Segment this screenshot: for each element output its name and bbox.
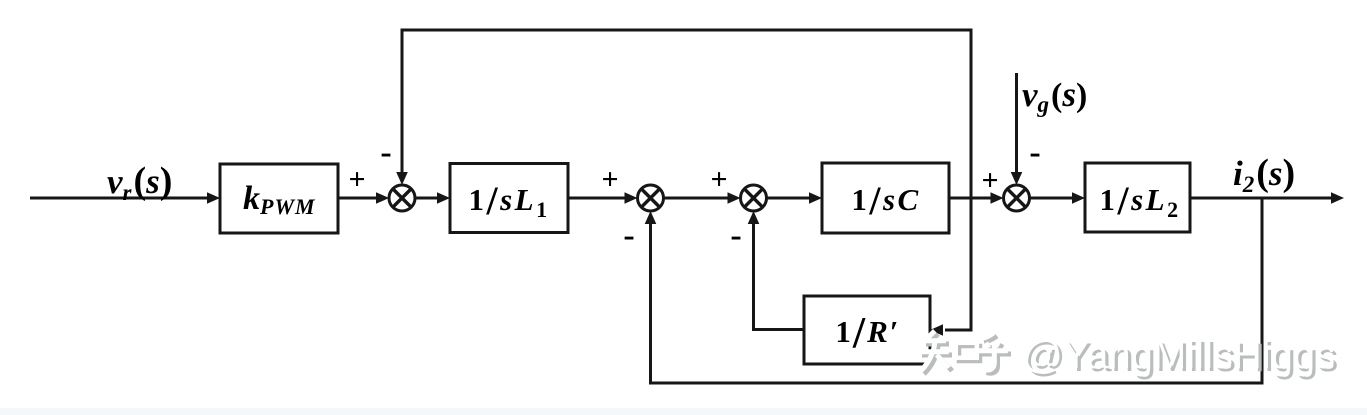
wire output i2 — [1190, 197, 1332, 200]
arrowhead into L1 — [437, 192, 450, 204]
block kPWM — [220, 164, 338, 233]
arrowhead into S2 left — [625, 192, 638, 204]
wire L1 to sum S2 — [568, 197, 626, 200]
summing junction S3 — [741, 185, 767, 211]
arrowhead into S1 left — [376, 192, 389, 204]
arrowhead into S4 left — [991, 192, 1004, 204]
summing junction S4 — [1004, 185, 1030, 211]
block 1/sC — [822, 163, 949, 233]
summing junction S1 — [389, 185, 415, 211]
arrowhead into L2 — [1072, 192, 1085, 204]
wire bottom feedback i2 to S2 — [651, 198, 1263, 383]
wire S1 to block L1 — [415, 197, 439, 200]
wire S3 to block C — [767, 197, 812, 200]
arrowhead output — [1331, 192, 1344, 204]
svg-text:+: + — [601, 163, 618, 196]
arrowhead into S3 bottom — [748, 211, 760, 224]
svg-text:vg(s): vg(s) — [1022, 75, 1087, 117]
svg-text:@YangMillsHiggs: @YangMillsHiggs — [1022, 333, 1335, 377]
wire top feedback from node vC to S1 — [402, 30, 971, 330]
svg-text:+: + — [348, 163, 365, 196]
arrowhead into C — [809, 192, 822, 204]
wire S2 to sum S3 — [664, 197, 730, 200]
bottom gray strip — [0, 408, 1367, 415]
svg-text:-: - — [380, 134, 391, 171]
svg-text:+: + — [981, 164, 998, 197]
wire vg input to S4 — [1015, 73, 1018, 174]
svg-text:-: - — [730, 217, 741, 254]
block 1/sL2 — [1085, 163, 1190, 232]
svg-text:+: + — [710, 163, 727, 196]
svg-text:vr(s): vr(s) — [107, 160, 172, 205]
block 1/Rp — [804, 296, 930, 364]
arrowhead into kPWM — [207, 192, 220, 204]
wire input vr — [30, 197, 209, 200]
summing junction S2 — [638, 185, 664, 211]
wire kPWM to sum S1 — [338, 197, 378, 200]
watermark zhihu characters — [919, 331, 1011, 374]
svg-text:1/sC: 1/sC — [851, 178, 920, 223]
arrowhead into Rp right — [930, 324, 943, 336]
svg-text:-: - — [1029, 134, 1040, 171]
svg-text:i2(s): i2(s) — [1233, 152, 1295, 197]
arrowhead into S2 bottom — [645, 211, 657, 224]
wire Rp output to S3 — [754, 222, 805, 330]
arrowhead into S4 top — [1011, 172, 1023, 185]
wire C to sum S4 — [949, 197, 992, 200]
arrowhead into S3 left — [728, 192, 741, 204]
arrowhead into S1 top — [396, 172, 408, 185]
svg-text:-: - — [623, 217, 634, 254]
wire S4 to block L2 — [1030, 197, 1075, 200]
block 1/sL1 — [450, 164, 568, 233]
